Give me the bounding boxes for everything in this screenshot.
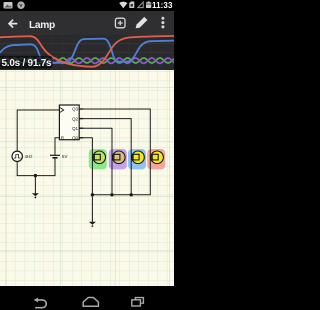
svg-text:Lamp: Lamp bbox=[29, 20, 55, 31]
nav home button bbox=[83, 298, 98, 307]
status icon: signal triangle bbox=[138, 2, 143, 8]
wire: source top to clock input bbox=[17, 110, 59, 151]
back arrow bbox=[9, 20, 17, 27]
status bar background bbox=[0, 0, 174, 11]
oscilloscope background bbox=[0, 35, 174, 70]
status icon: wifi bbox=[119, 2, 127, 9]
scope trace purple bbox=[0, 58, 176, 64]
wire: Q2 output to lamp column bbox=[79, 119, 131, 195]
wire: battery bottom bbox=[54, 158, 56, 176]
wire: ground stem left bbox=[34, 176, 36, 194]
svg-text:Q1: Q1 bbox=[72, 126, 79, 131]
lamp L2 bbox=[112, 151, 125, 164]
green highlight box lamp L1 bbox=[89, 149, 107, 169]
wire: Q0 output to lamp column bbox=[79, 138, 92, 195]
app bar background bbox=[0, 11, 174, 35]
nav recents button bbox=[132, 298, 144, 306]
wire: Q1 output to lamp column bbox=[79, 128, 112, 195]
add component icon (+ in box) bbox=[115, 18, 125, 28]
overflow menu dots bbox=[161, 17, 164, 29]
svg-text:11:33: 11:33 bbox=[152, 1, 173, 10]
junction dot left bus bbox=[34, 174, 37, 177]
wire: Q3 output to lamp column bbox=[79, 109, 150, 195]
status icon: battery bbox=[146, 2, 151, 9]
purple highlight box lamp L2 bbox=[109, 149, 127, 169]
scope graticule bbox=[0, 44, 174, 61]
lamp L1 bbox=[92, 151, 105, 164]
junction dot lamp bus bbox=[130, 193, 133, 196]
counter chip U1 body bbox=[59, 105, 79, 140]
blue highlight box lamp L3 bbox=[128, 149, 146, 169]
red highlight box lamp L4 bbox=[147, 149, 165, 169]
graph paper background bbox=[0, 70, 174, 286]
battery B1 5V bbox=[50, 155, 60, 158]
chip clock input symbol bbox=[60, 108, 64, 113]
junction dot lamp bus bbox=[110, 193, 113, 196]
square wave source V1 bbox=[12, 151, 22, 161]
nav back button bbox=[34, 298, 47, 308]
notification icon: screenshot picture bbox=[4, 2, 13, 9]
edit pencil icon bbox=[136, 17, 148, 28]
wire: left ground bus bbox=[17, 175, 55, 177]
wire: ground stem right bbox=[91, 195, 93, 222]
scope trace green (Q lamp ripple) bbox=[0, 58, 176, 63]
svg-text:5.0s / 91.7s: 5.0s / 91.7s bbox=[2, 58, 53, 69]
lamp L4 bbox=[150, 151, 163, 164]
notification icon: circle bbox=[17, 1, 25, 9]
svg-text:5V: 5V bbox=[62, 154, 67, 159]
svg-text:Q2: Q2 bbox=[72, 116, 79, 121]
svg-text:Q3: Q3 bbox=[72, 107, 79, 112]
scope trace blue (output square-ish wave) bbox=[0, 39, 174, 63]
scope time label box bbox=[0, 56, 53, 69]
wire: battery top to R pin bbox=[55, 138, 59, 155]
wire: source bottom to ground bus bbox=[16, 161, 18, 175]
wire: lamp ground bus bbox=[92, 194, 150, 196]
lamp L3 bbox=[131, 151, 144, 164]
junction dot lamp bus bbox=[91, 193, 94, 196]
svg-text:Q0: Q0 bbox=[72, 136, 79, 141]
scope trace red (cap voltage) bbox=[0, 36, 174, 67]
chip pin stubs bbox=[79, 109, 83, 138]
navigation bar background bbox=[0, 286, 174, 310]
ground left bbox=[32, 193, 39, 198]
svg-text:4Hz: 4Hz bbox=[25, 154, 33, 159]
ground right bbox=[89, 222, 96, 227]
status icon: sd card bbox=[129, 2, 134, 9]
